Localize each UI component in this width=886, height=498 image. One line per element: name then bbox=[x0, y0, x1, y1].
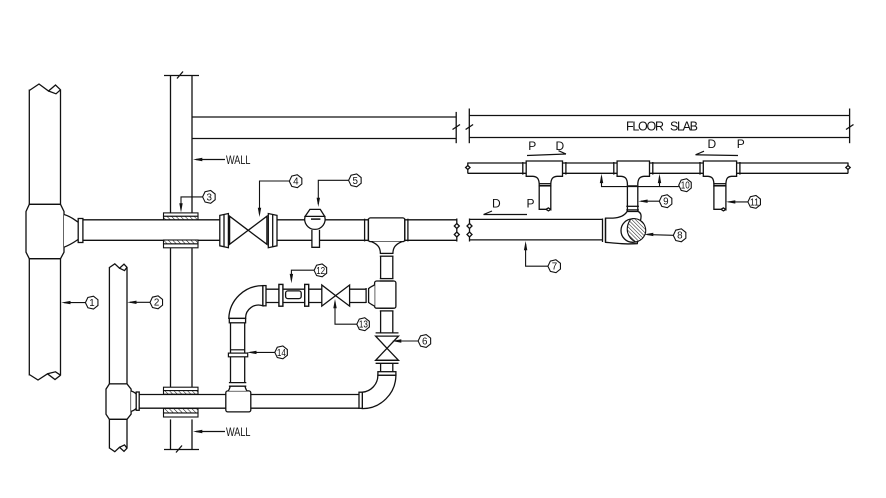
svg-text:2: 2 bbox=[154, 298, 159, 309]
svg-text:9: 9 bbox=[663, 197, 668, 208]
svg-text:FLOOR: FLOOR bbox=[626, 120, 664, 134]
svg-text:8: 8 bbox=[677, 231, 683, 242]
svg-text:3: 3 bbox=[206, 192, 212, 203]
svg-text:SLAB: SLAB bbox=[670, 120, 698, 134]
svg-text:4: 4 bbox=[293, 177, 299, 188]
svg-text:5: 5 bbox=[352, 176, 358, 187]
svg-text:12: 12 bbox=[316, 266, 325, 277]
svg-text:14: 14 bbox=[277, 348, 286, 359]
svg-text:10: 10 bbox=[681, 181, 690, 192]
svg-text:7: 7 bbox=[552, 262, 557, 273]
svg-text:6: 6 bbox=[422, 336, 428, 347]
svg-text:1: 1 bbox=[89, 298, 94, 309]
svg-text:13: 13 bbox=[359, 320, 368, 331]
svg-text:11: 11 bbox=[750, 197, 759, 208]
